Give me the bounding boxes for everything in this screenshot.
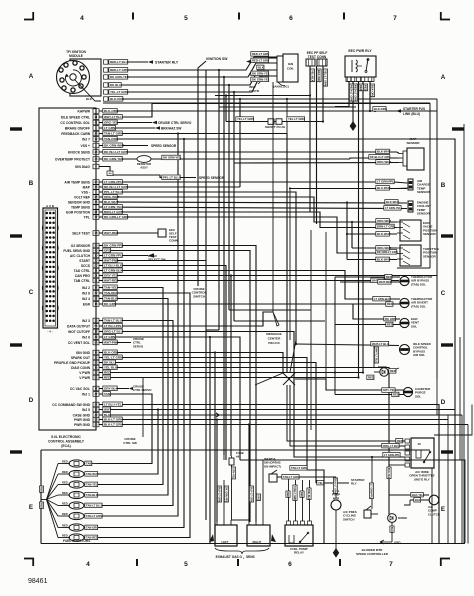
svg-text:WHT: WHT — [104, 407, 111, 411]
svg-text:SELECT SW: SELECT SW — [148, 258, 166, 262]
svg-text:INJ 5: INJ 5 — [82, 408, 90, 412]
svg-text:(WOT) RLY: (WOT) RLY — [414, 477, 430, 481]
wire fuel pump relay feeds — [288, 477, 290, 480]
svg-text:C: C — [441, 290, 446, 297]
svg-text:TAN: TAN — [104, 392, 111, 396]
fuel injector 5 — [58, 505, 70, 507]
svg-text:BLK-LT GRN: BLK-LT GRN — [104, 417, 123, 421]
svg-text:6: 6 — [288, 561, 292, 568]
svg-text:WHT-RED: WHT-RED — [104, 278, 119, 282]
TAD solenoid L2 — [400, 298, 409, 307]
wire START WHT-PNK gear select — [99, 260, 206, 262]
wire VSS- PPL-LT BLU speed sensor 2 — [113, 175, 196, 178]
wire mesh right verticals — [429, 103, 431, 268]
svg-text:E: E — [29, 504, 33, 511]
wire coil INST CLSTR down to message center — [272, 82, 274, 312]
svg-text:RED-LT GRN: RED-LT GRN — [252, 52, 269, 56]
wire MAP DK BLU-LT GRN — [99, 186, 240, 188]
wire EGR DK GRN — [99, 304, 400, 319]
svg-text:RED: RED — [397, 439, 403, 443]
grid half-tick right — [441, 343, 453, 346]
wire BLK-YEL vertical — [388, 465, 390, 514]
bottom right bus verticals — [447, 415, 449, 544]
svg-text:#9: #9 — [236, 455, 240, 459]
svg-text:AIR SOL: AIR SOL — [413, 353, 425, 357]
svg-text:PROFILE GND PICKUP: PROFILE GND PICKUP — [54, 361, 91, 365]
svg-text:FUEL SENS GND: FUEL SENS GND — [63, 249, 90, 253]
svg-text:TAN-LT GRN: TAN-LT GRN — [86, 514, 102, 518]
svg-text:BLK: BLK — [390, 527, 393, 532]
wire short plug left YEL-LT GRN — [226, 121, 268, 123]
svg-text:D: D — [29, 397, 34, 404]
svg-text:TPL: TPL — [84, 215, 90, 219]
svg-text:B: B — [441, 182, 446, 189]
svg-text:YEL-BLK: YEL-BLK — [104, 365, 118, 369]
svg-text:RED: RED — [62, 459, 68, 463]
svg-text:RED: RED — [300, 492, 303, 497]
EEC power relay body K1 — [345, 56, 376, 77]
svg-text:WHT-RED: WHT-RED — [379, 280, 392, 284]
svg-text:TAN-LT GRN: TAN-LT GRN — [293, 486, 296, 501]
wire relay RED 2 down — [362, 82, 364, 373]
svg-text:ORG-YEL: ORG-YEL — [104, 120, 118, 124]
svg-text:BRN-LT GRN: BRN-LT GRN — [377, 225, 395, 229]
wire mesh bottom h460 — [223, 455, 225, 460]
svg-text:TAN-RED: TAN-RED — [104, 291, 118, 295]
wire SENSOR GND BLK-WHT — [99, 202, 407, 203]
svg-text:SENS: SENS — [246, 555, 255, 559]
svg-text:ORG-WHT: ORG-WHT — [104, 195, 119, 199]
wire vertical bus x234 — [233, 92, 235, 321]
wire MAP pin ORG-WHT — [234, 162, 399, 165]
svg-text:BLK-LT GRN: BLK-LT GRN — [334, 479, 337, 494]
svg-text:DK GRN-PPL: DK GRN-PPL — [225, 487, 228, 503]
svg-text:RLY: RLY — [351, 482, 357, 486]
svg-text:SENSOR: SENSOR — [417, 190, 431, 194]
diode D2 — [388, 514, 397, 523]
svg-text:LT GRN-PPL: LT GRN-PPL — [104, 253, 122, 257]
svg-text:RED: RED — [62, 491, 68, 495]
svg-text:LT BLU-PPL: LT BLU-PPL — [104, 324, 122, 328]
svg-text:KNOCK SENS: KNOCK SENS — [68, 150, 91, 154]
svg-text:BLK: BLK — [415, 498, 420, 502]
svg-text:BLK-WHT: BLK-WHT — [104, 200, 119, 204]
svg-text:RED-LT GRN: RED-LT GRN — [354, 85, 358, 101]
wire air charge BLU-WHT — [289, 188, 407, 190]
wire to starter fuse link — [369, 110, 371, 112]
svg-text:AIR TEMP SENS: AIR TEMP SENS — [64, 180, 90, 184]
wire mesh h430 — [310, 230, 312, 430]
wire VOLT REF ORG-WHT — [99, 197, 397, 222]
grid half-tick left — [10, 450, 22, 453]
svg-text:RELAY: RELAY — [294, 551, 304, 555]
svg-text:TAN-LT GRN: TAN-LT GRN — [283, 475, 299, 479]
wire MAP pin BLK-WHT — [397, 152, 399, 154]
svg-text:- 4 -: - 4 - — [47, 330, 52, 334]
svg-text:MESSAGE: MESSAGE — [266, 332, 281, 336]
exhaust brace — [215, 548, 269, 554]
svg-text:BLK-ORG: BLK-ORG — [371, 85, 375, 98]
svg-text:DK GRN: DK GRN — [104, 302, 117, 306]
wire right mid h268 — [397, 267, 430, 269]
wire IDLE SPEED CTRL WHT-LT BLU — [99, 104, 152, 118]
wire TAB WHT-RED — [340, 281, 400, 283]
wire BRAKE ON/OFF LT GRN — [99, 127, 155, 129]
wire VSS+ DK GRN-WHT — [99, 145, 148, 147]
svg-text:6: 6 — [289, 15, 293, 22]
fuel injector 1 — [58, 463, 70, 465]
svg-text:TAN-LT BLU: TAN-LT BLU — [104, 318, 123, 322]
arrow case gnd — [211, 413, 219, 417]
wire diode down to grd — [391, 522, 393, 542]
svg-text:TAN-WHT: TAN-WHT — [86, 472, 99, 476]
svg-text:TAN-RED: TAN-RED — [86, 536, 98, 540]
wire vertical bus x198 — [198, 61, 206, 286]
svg-text:EXHAUST GAS O: EXHAUST GAS O — [216, 555, 243, 559]
svg-text:INJ 3: INJ 3 — [82, 319, 90, 323]
bottom enclosure wire top — [41, 449, 430, 451]
X junction — [283, 373, 295, 385]
svg-text:INJ 8: INJ 8 — [82, 291, 90, 295]
svg-text:PNK-BLK: PNK-BLK — [307, 489, 310, 500]
svg-text:BLK-ORG: BLK-ORG — [104, 109, 119, 113]
svg-text:(TAB) SOL: (TAB) SOL — [411, 282, 426, 286]
svg-text:CTRL SW: CTRL SW — [123, 441, 137, 445]
svg-text:DK GRN-LT GRN: DK GRN-LT GRN — [377, 250, 398, 254]
svg-text:STARTER RLY: STARTER RLY — [155, 61, 179, 65]
wire PWR GND BLK-LT GRN 2 — [99, 424, 468, 426]
svg-text:PIN #10: PIN #10 — [268, 341, 279, 345]
A/C comp clutch M2 — [429, 495, 439, 505]
svg-text:GRD: GRD — [394, 541, 400, 545]
svg-text:BLK-LT GRN: BLK-LT GRN — [250, 487, 253, 502]
engine coolant temp sensor — [408, 201, 413, 212]
wire INJ6 LT GRN — [99, 337, 240, 460]
svg-text:BLK: BLK — [104, 413, 111, 417]
svg-text:LT GRN: LT GRN — [104, 126, 116, 130]
svg-text:10: 10 — [417, 442, 421, 446]
svg-text:BLK-ORG: BLK-ORG — [110, 97, 125, 101]
svg-text:LT GRN-PPL: LT GRN-PPL — [377, 180, 394, 184]
svg-text:TAN-LT BLU: TAN-LT BLU — [86, 504, 102, 508]
wire WOT relay to bottom — [431, 468, 433, 544]
svg-text:ORG: ORG — [104, 248, 112, 252]
frame corner top-right — [440, 12, 442, 20]
wire vertical bus x206 — [205, 70, 207, 520]
svg-text:DK BLU: DK BLU — [104, 360, 116, 364]
left O2 sensor — [215, 525, 237, 546]
svg-text:DK GRN-YEL: DK GRN-YEL — [252, 78, 270, 82]
svg-text:PWR GND: PWR GND — [74, 423, 91, 427]
svg-text:BLK-WHT: BLK-WHT — [377, 258, 391, 262]
svg-text:SENSOR: SENSOR — [423, 232, 437, 236]
svg-text:98461: 98461 — [28, 578, 48, 585]
svg-text:WHT-LT BLU: WHT-LT BLU — [104, 115, 123, 119]
MAP sensor U2 — [407, 148, 424, 170]
svg-text:DIAG CONN: DIAG CONN — [71, 366, 90, 370]
wire KAPWR BLK-ORG — [99, 110, 437, 112]
grid half-tick right — [441, 450, 453, 453]
svg-text:CAN PRG: CAN PRG — [75, 274, 91, 278]
svg-text:RED: RED — [390, 369, 396, 373]
ignition coil (analog) — [283, 54, 298, 82]
TAB solenoid L1 — [400, 276, 409, 285]
wire DATA OUTPUT LT BLU-PPL to message center — [99, 312, 273, 326]
svg-text:DATA OUTPUT: DATA OUTPUT — [67, 324, 90, 328]
svg-text:SENSOR: SENSOR — [406, 141, 420, 145]
svg-text:SOL: SOL — [411, 324, 417, 328]
wire INJ3 TAN-LT BLU — [97, 321, 173, 506]
wire short plug right YEL-LT GRN — [282, 121, 323, 123]
wire vertical bus x210 — [209, 337, 211, 544]
bottom enclosure wire bottom — [41, 543, 465, 545]
svg-text:RED: RED — [62, 480, 68, 484]
X junction feeds to relay — [287, 385, 405, 441]
svg-text:RED: RED — [387, 302, 393, 306]
svg-text:RED: RED — [364, 85, 368, 91]
wire AIR TEMP SENS LT GRN-PPL — [99, 181, 375, 183]
svg-text:VOLT REF: VOLT REF — [74, 195, 90, 199]
svg-text:7: 7 — [389, 561, 393, 568]
bottom enclosure wire left — [40, 450, 42, 544]
svg-text:TAN-LT GRN: TAN-LT GRN — [291, 466, 307, 470]
grid tick top 2 — [238, 13, 240, 20]
wire idle speed WHT-LT BLU — [296, 344, 399, 346]
fuel injector 7 — [58, 527, 70, 529]
svg-text:STARTER FUS: STARTER FUS — [403, 107, 425, 111]
svg-text:LT GRN-BLK: LT GRN-BLK — [104, 268, 123, 272]
svg-text:ON IMPACT): ON IMPACT) — [264, 464, 281, 468]
fuel pump gnd diamond — [333, 548, 339, 558]
self test connector boxes — [306, 59, 315, 66]
svg-text:GRY-YEL: GRY-YEL — [232, 468, 235, 479]
svg-text:BRK/HAZ SW: BRK/HAZ SW — [161, 127, 181, 131]
svg-text:CENTER: CENTER — [268, 337, 281, 341]
svg-text:BLK-WHT: BLK-WHT — [377, 232, 391, 236]
wire CC COMMAND SW GND LT BLU-YEL — [99, 405, 439, 544]
wire self test YEL-LT GRN down — [322, 66, 324, 121]
svg-text:A: A — [29, 73, 34, 80]
svg-text:CLUTCH: CLUTCH — [428, 512, 440, 516]
svg-text:BLK-YEL: BLK-YEL — [387, 468, 390, 479]
wire self test YEL-BLK down — [309, 66, 311, 212]
svg-text:RED-LT GRN: RED-LT GRN — [252, 59, 269, 63]
svg-text:INJ 2: INJ 2 — [82, 286, 90, 290]
svg-text:LT BLU-YEL: LT BLU-YEL — [104, 402, 122, 406]
svg-text:ORG: ORG — [257, 495, 260, 501]
svg-text:A: A — [441, 74, 446, 81]
svg-text:LT GRN: LT GRN — [104, 335, 116, 339]
svg-text:WHT-LT BLU: WHT-LT BLU — [372, 342, 389, 346]
frame corner bottom-right — [440, 558, 442, 566]
svg-text:EEC PWR RLY: EEC PWR RLY — [348, 49, 372, 53]
right O2 sensor — [247, 525, 270, 546]
resistor oval — [137, 156, 151, 163]
svg-text:LT GRN-PPL: LT GRN-PPL — [104, 180, 122, 184]
wire CC VAC SOL GRY-BLK — [99, 388, 129, 390]
svg-text:INJ 6: INJ 6 — [82, 335, 90, 339]
svg-text:FEEDBACK CARB: FEEDBACK CARB — [61, 132, 90, 136]
wire mesh h372 left — [255, 373, 283, 385]
wire mesh top h107 — [219, 106, 356, 108]
wire IGN GND BLK-ORG — [99, 353, 283, 374]
svg-text:BLK-ORG: BLK-ORG — [374, 107, 387, 111]
svg-text:RED: RED — [40, 487, 43, 492]
svg-text:DIODE: DIODE — [378, 365, 387, 369]
idle speed control bypass air sol L4 — [400, 345, 410, 355]
svg-text:SPEED SENSOR: SPEED SENSOR — [199, 176, 225, 180]
svg-text:TAN-LT GRN: TAN-LT GRN — [104, 131, 123, 135]
wire mesh h330 — [206, 329, 219, 331]
svg-text:BLK-ORG: BLK-ORG — [104, 350, 119, 354]
grid tick bottom 2 — [237, 559, 239, 566]
svg-text:BRN-LT GRN: BRN-LT GRN — [104, 210, 124, 214]
wire TFI pin4 DK BLU — [108, 70, 277, 85]
ECA outline box — [39, 108, 96, 430]
svg-text:RED: RED — [393, 393, 399, 397]
wire mesh h321 — [234, 320, 325, 322]
svg-text:B: B — [29, 180, 34, 187]
wire INJ8 TAN-RED — [97, 293, 190, 538]
svg-text:CC CONTROL SOL: CC CONTROL SOL — [60, 121, 90, 125]
svg-text:RED: RED — [386, 275, 392, 279]
svg-text:WHT-RED: WHT-RED — [104, 231, 119, 235]
wire SELF TEST WHT-RED — [99, 232, 158, 234]
wire air charge pins — [407, 182, 408, 184]
wire INJ5 WHT — [99, 409, 455, 411]
svg-text:ORG-LT BLU: ORG-LT BLU — [104, 329, 124, 333]
svg-text:DK BLU-LT GRN: DK BLU-LT GRN — [104, 185, 129, 189]
wire CAN PRG GRY-YEL — [99, 275, 437, 277]
A/C WOT relay K3 — [411, 438, 434, 468]
grid half-tick left — [10, 343, 22, 346]
svg-text:BLK-WHT: BLK-WHT — [377, 150, 391, 154]
svg-text:SELF TEST: SELF TEST — [72, 231, 90, 235]
svg-text:SHORT PLUG: SHORT PLUG — [265, 125, 286, 129]
wire INJ2 TAN-YEL — [97, 288, 163, 485]
message center arrow — [273, 312, 279, 326]
wire CASE GND BLK — [99, 414, 462, 416]
svg-text:RED: RED — [40, 503, 43, 508]
svg-text:4: 4 — [86, 561, 90, 568]
wire CC CONTROL SOL ORG-YEL — [99, 122, 152, 124]
svg-text:YEL-LT GRN: YEL-LT GRN — [104, 355, 123, 359]
svg-text:LT GRN-PPL: LT GRN-PPL — [370, 484, 373, 499]
wire SCCS LT BLU-BLK — [99, 266, 226, 461]
wire V PWR RED 1 — [99, 372, 363, 374]
label TAN-LT GRN bottom — [109, 60, 128, 65]
svg-text:SERVO: SERVO — [133, 344, 144, 348]
wire VSS2 PPL-LT BLU — [99, 192, 296, 344]
svg-text:INJ 7: INJ 7 — [82, 137, 90, 141]
grid tick top 3 — [343, 13, 345, 20]
svg-text:PPL-LT BLU: PPL-LT BLU — [104, 190, 123, 194]
wire TPL DK GRN-LT GRN — [99, 217, 397, 253]
EEC self test conn box (mid) — [158, 229, 166, 237]
short plug fuse symbol — [268, 119, 274, 125]
svg-text:CASE GND: CASE GND — [73, 413, 91, 417]
svg-text:YEL: YEL — [318, 481, 323, 485]
wire TFI pin2 RED-LT GRN to ign coil — [108, 57, 277, 70]
svg-text:5.0L ELECTRONIC: 5.0L ELECTRONIC — [51, 435, 81, 439]
svg-text:BLK-LT GRN: BLK-LT GRN — [104, 422, 123, 426]
svg-text:TAN-YEL: TAN-YEL — [86, 483, 98, 487]
RED bus vertical — [334, 277, 336, 395]
svg-text:RED: RED — [104, 375, 111, 379]
svg-text:BLK-WHT: BLK-WHT — [386, 200, 399, 204]
wire TAB CTRL WHT-RED — [99, 280, 399, 282]
svg-text:SENSOR: SENSOR — [417, 212, 431, 216]
fuel pump relay K2 — [285, 525, 313, 546]
svg-text:DK GRN-WHT: DK GRN-WHT — [104, 143, 124, 147]
svg-text:DK GRN-PPL: DK GRN-PPL — [104, 243, 123, 247]
svg-text:SPEED CONTROLLER: SPEED CONTROLLER — [356, 552, 389, 556]
left O2 arrow — [209, 534, 214, 542]
svg-text:COIL: COIL — [287, 67, 294, 71]
grid tick top 1 — [132, 13, 134, 20]
svg-text:IGN DIAG: IGN DIAG — [75, 165, 90, 169]
wire vertical bus x229 — [228, 85, 230, 310]
svg-text:SPEED SENSOR: SPEED SENSOR — [151, 144, 177, 148]
svg-text:GRY-YEL: GRY-YEL — [383, 388, 395, 392]
svg-text:PWR GND: PWR GND — [74, 418, 91, 422]
svg-text:CC VAC SOL: CC VAC SOL — [70, 387, 90, 391]
svg-text:O2 SENSOR: O2 SENSOR — [71, 244, 91, 248]
svg-text:LT BLU-BLK: LT BLU-BLK — [104, 263, 123, 267]
wire right vert x465 — [240, 460, 465, 543]
wire TFI pin5 YEL-LT GRN — [108, 76, 277, 92]
wire IGN DIAG down — [99, 167, 110, 172]
svg-text:LT GRN-YEL: LT GRN-YEL — [385, 206, 401, 210]
wire EGR pos BLK-WHT — [347, 233, 397, 235]
svg-text:RED-LT GRN: RED-LT GRN — [350, 85, 354, 101]
svg-text:VSS +: VSS + — [81, 144, 91, 148]
wire KNOCK SENS DK BLU-LT GRN — [99, 151, 397, 153]
wire FUEL SENS GND ORG — [99, 251, 250, 523]
wire FEEDBACK CARB TAN-LT GRN — [99, 134, 287, 374]
svg-text:WHT-PNK: WHT-PNK — [104, 340, 119, 344]
svg-text:WOT CUTOFF: WOT CUTOFF — [68, 330, 90, 334]
svg-text:SENSOR: SENSOR — [423, 254, 437, 258]
svg-text:SWITCH: SWITCH — [193, 294, 205, 298]
throttle position sensor U4 — [400, 245, 421, 266]
svg-text:BLK-LT GRN: BLK-LT GRN — [218, 487, 221, 502]
svg-text:YEL-LT GRN: YEL-LT GRN — [288, 117, 305, 121]
svg-text:DK GRN-YEL: DK GRN-YEL — [104, 157, 123, 161]
wire mesh top h103 — [152, 103, 430, 105]
wire TFI pin1 RED-LT BLU to starter relay — [108, 61, 148, 63]
svg-text:BLU-WHT: BLU-WHT — [377, 186, 391, 190]
wire MAP pin DK BLU-LT GRN — [350, 158, 399, 159]
wire TAD RED — [335, 303, 400, 305]
svg-text:DK GRN-YEL: DK GRN-YEL — [163, 156, 181, 160]
grid half-tick right — [441, 234, 453, 237]
svg-text:CONN: CONN — [169, 239, 178, 243]
svg-text:RED: RED — [62, 512, 68, 516]
svg-text:DIODE: DIODE — [398, 516, 407, 520]
svg-text:RED: RED — [62, 523, 68, 527]
svg-text:YEL-BLK: YEL-BLK — [311, 70, 315, 82]
wire from short plug up to bus — [225, 96, 227, 122]
air charge temp sensor — [408, 179, 413, 190]
wire WOT CUTOFF ORG-LT BLU — [99, 332, 405, 458]
svg-text:IGN: IGN — [288, 62, 293, 66]
svg-text:RED-LT BLU: RED-LT BLU — [110, 60, 128, 64]
svg-text:START: START — [79, 259, 90, 263]
svg-text:EGR POSITION: EGR POSITION — [66, 210, 90, 214]
svg-text:E: E — [441, 506, 445, 513]
wire O2 verticals mesh — [262, 460, 264, 480]
